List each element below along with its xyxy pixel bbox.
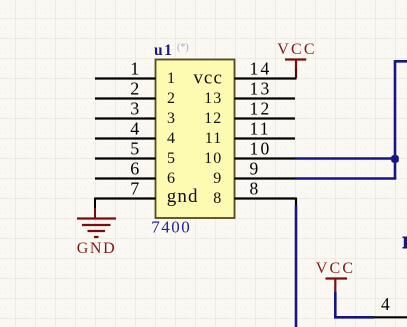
svg-text:gnd: gnd bbox=[167, 186, 199, 207]
svg-text:11: 11 bbox=[250, 118, 271, 138]
pin 9 bbox=[213, 158, 295, 187]
VCC bottom label bbox=[316, 260, 356, 277]
svg-text:6: 6 bbox=[167, 170, 175, 187]
svg-text:5: 5 bbox=[130, 138, 139, 158]
pin 3 bbox=[95, 98, 175, 127]
svg-text:7: 7 bbox=[130, 178, 139, 198]
svg-text:3: 3 bbox=[167, 110, 175, 127]
svg-text:2: 2 bbox=[130, 78, 139, 98]
wire pin8 down bbox=[295, 198, 297, 327]
IC U1 body 7400 quad NAND bbox=[156, 60, 235, 219]
pin 11 bbox=[205, 118, 295, 147]
pin 14 vcc bbox=[193, 58, 296, 88]
IC U1 annotation mark (*) bbox=[177, 42, 189, 53]
pin 4 bbox=[95, 118, 175, 147]
wire net pin10 to junction bbox=[295, 157, 396, 160]
pin 5 bbox=[95, 138, 175, 167]
pin 7 gnd bbox=[95, 178, 199, 207]
VCC top label bbox=[277, 41, 317, 58]
pin 4 of offsheet part bbox=[374, 294, 407, 317]
pin 12 bbox=[204, 98, 295, 127]
pin 10 bbox=[204, 138, 295, 167]
power VCC top symbol bbox=[285, 60, 306, 79]
svg-text:3: 3 bbox=[130, 98, 139, 118]
svg-text:(*): (*) bbox=[177, 42, 189, 53]
ground symbol bbox=[77, 219, 116, 238]
pin 6 bbox=[95, 158, 175, 187]
svg-text:12: 12 bbox=[250, 98, 272, 118]
svg-text:VCC: VCC bbox=[277, 41, 317, 58]
svg-text:4: 4 bbox=[130, 118, 139, 138]
svg-text:2: 2 bbox=[167, 90, 175, 107]
svg-text:1: 1 bbox=[167, 70, 175, 87]
svg-text:10: 10 bbox=[250, 138, 272, 158]
svg-text:8: 8 bbox=[213, 190, 222, 207]
svg-text:14: 14 bbox=[250, 58, 272, 78]
svg-text:10: 10 bbox=[204, 150, 222, 167]
wire pin9 net bbox=[295, 177, 396, 180]
svg-text:5: 5 bbox=[167, 150, 175, 167]
IC U1 value 7400 bbox=[151, 217, 191, 236]
svg-text:1: 1 bbox=[130, 58, 139, 78]
svg-text:11: 11 bbox=[205, 130, 223, 147]
svg-text:9: 9 bbox=[213, 170, 222, 187]
partial designator at right edge bbox=[403, 237, 407, 249]
IC U1 designator u1 bbox=[154, 42, 173, 59]
svg-text:GND: GND bbox=[77, 240, 116, 257]
junction bbox=[391, 155, 399, 162]
svg-text:9: 9 bbox=[250, 158, 261, 178]
wire VCC bottom to right bbox=[335, 292, 374, 317]
svg-text:4: 4 bbox=[167, 130, 175, 147]
pin 2 bbox=[95, 78, 175, 107]
wire vertical right net bbox=[395, 61, 407, 178]
svg-text:13: 13 bbox=[250, 78, 272, 98]
svg-text:6: 6 bbox=[130, 158, 139, 178]
svg-text:12: 12 bbox=[204, 110, 222, 127]
svg-text:13: 13 bbox=[204, 90, 222, 107]
svg-text:u1: u1 bbox=[154, 42, 173, 59]
pin 13 bbox=[204, 78, 295, 107]
svg-text:7400: 7400 bbox=[151, 217, 191, 236]
svg-text:8: 8 bbox=[250, 178, 261, 198]
pin 1 bbox=[95, 58, 175, 87]
pin 8 bbox=[213, 178, 296, 207]
wire pin7 down to ground bbox=[94, 198, 96, 219]
svg-text:VCC: VCC bbox=[316, 260, 356, 277]
svg-text:vcc: vcc bbox=[193, 67, 223, 88]
GND label bbox=[77, 240, 116, 257]
svg-text:4: 4 bbox=[381, 294, 390, 314]
power VCC bottom symbol bbox=[326, 279, 348, 294]
